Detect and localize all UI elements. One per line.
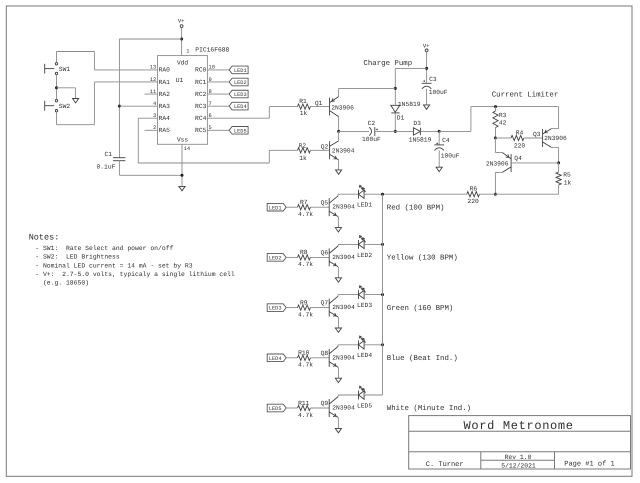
svg-text:R8: R8 [300,249,308,256]
wire SW1 top to RA0 [57,52,158,70]
node label Red (100 BPM) [387,203,445,212]
svg-text:C2: C2 [368,120,376,127]
svg-text:100uF: 100uF [441,152,460,159]
wire LED4 to bus [364,344,383,346]
svg-text:100uF: 100uF [362,136,381,143]
wire D1 to mid rail [394,113,397,133]
svg-text:LED2: LED2 [269,256,282,262]
node label Notes [29,232,235,286]
svg-text:2N3904: 2N3904 [332,304,355,311]
resistor R6 220 [467,186,480,206]
resistor R10 4.7k [298,350,314,369]
wire D1 node to D3 [395,130,413,132]
wire Q9 emitter to ground [337,417,339,428]
svg-text:Charge Pump: Charge Pump [363,59,412,68]
node LED5 flag (driver input) [267,404,286,412]
node LED4 flag (driver input) [267,354,286,362]
wire R2 to Q2 base [310,149,329,151]
wire junction to ground (switches) [57,88,76,99]
wire bottom rail (bus to R6 to R5) [383,193,559,195]
wire Q8 collector to LED4 [338,345,358,347]
resistor R1 1k [298,98,311,117]
svg-text:RA1: RA1 [159,79,171,86]
wire Q6 emitter to ground [337,267,339,278]
wire Q7 collector to LED3 [338,295,358,297]
wire RC4 to R1 [207,107,297,119]
node LED4 flag [229,102,248,110]
wire SW1 bottom to SW2 top [55,75,58,100]
svg-text:LED4: LED4 [269,356,282,362]
wire V+ to C3/rail [394,52,428,105]
svg-text:2N3904: 2N3904 [332,204,355,211]
svg-text:Q6: Q6 [321,250,329,257]
diode D3 1N5819 [409,120,432,144]
wire RA2 stub [145,93,158,95]
svg-text:4.7k: 4.7k [298,261,313,268]
LED LED4 [357,336,372,359]
svg-text:Rev 1.0: Rev 1.0 [505,454,532,461]
svg-text:Word Metronome: Word Metronome [464,419,574,433]
svg-text:Q5: Q5 [321,199,329,206]
wire Q3 collector to R5 node [551,147,560,164]
svg-text:RC2: RC2 [195,91,207,98]
wire Q3 emitter to rail [551,107,558,129]
node bus junction [381,343,384,346]
node LED3 flag [229,90,248,98]
capacitor C1 0.1uF [97,151,126,170]
transistor Q4 2N3906 [486,153,522,173]
svg-text:R11: R11 [298,400,310,407]
wire Q1/Q2 node to C2 [339,130,369,132]
svg-text:220: 220 [514,143,526,150]
wire C2 to D1 node [375,130,396,132]
svg-text:2N3904: 2N3904 [332,148,355,155]
svg-text:- Nominal LED current = 14 mA: - Nominal LED current = 14 mA - set by R… [35,262,192,269]
svg-text:LED3: LED3 [234,92,247,98]
svg-text:RC5: RC5 [195,127,207,134]
resistor R3 47 [493,105,507,138]
capacitor C2 100uF [362,120,381,143]
switch SW1 [45,63,71,75]
wire R1 to Q1 base [310,106,329,108]
svg-text:Q8: Q8 [321,350,329,357]
wire V+ stem to IC Vdd [180,28,183,56]
svg-text:V+: V+ [178,18,185,25]
svg-text:RA4: RA4 [159,115,171,122]
wire D3 to C4 node [420,130,440,133]
diode D1 1N5819 [391,101,421,121]
svg-text:Notes:: Notes: [29,232,60,242]
svg-text:C. Turner: C. Turner [426,461,464,469]
ground (Q8 emitter) [335,378,341,382]
ground (Q7 emitter) [335,328,341,332]
svg-text:LED4: LED4 [234,104,247,110]
svg-text:Q2: Q2 [321,144,329,151]
wire Q1 collector to node [337,117,340,133]
svg-text:1N5819: 1N5819 [398,101,421,108]
power V+ (charge pump) [423,42,430,52]
wire C4 to ground [438,150,440,167]
LED LED1 [357,185,372,208]
svg-text:LED4: LED4 [357,352,372,359]
power V+ (IC supply) [178,18,185,28]
transistor Q6 2N3904 [321,246,355,267]
wire LED5 to bus [364,394,383,396]
wire Q4 collector to bottom rail [494,172,502,195]
resistor R8 4.7k [298,249,314,268]
wire RA5 stub [145,129,158,131]
svg-text:0.1uF: 0.1uF [97,164,116,171]
LED LED3 [357,286,372,309]
wire V+ rail to C1 branch [118,39,182,158]
wire LED bus vertical [382,194,384,395]
svg-text:2N3904: 2N3904 [332,254,355,261]
svg-text:C1: C1 [104,151,112,158]
svg-text:2N3906: 2N3906 [331,104,354,111]
transistor Q9 2N3904 [321,397,355,418]
svg-text:1k: 1k [300,110,308,117]
svg-text:LED5: LED5 [234,128,247,134]
svg-text:2N3906: 2N3906 [486,161,509,168]
wire RA4 loop to R2 [138,118,297,163]
node LED2 flag [229,78,248,86]
wire C4 node to limiter rail [439,107,558,132]
svg-text:Q1: Q1 [315,100,323,107]
svg-text:1: 1 [186,49,189,55]
svg-text:RA5: RA5 [159,127,171,134]
svg-text:Q3: Q3 [533,131,541,138]
node label Current Limiter [492,91,559,100]
node LED1 flag (driver input) [267,203,286,211]
svg-text:LED1: LED1 [234,68,247,74]
wire U1 to flag LED5 [207,129,229,131]
node label Blue (Beat Ind.) [387,354,458,363]
node bus junction [381,193,384,196]
svg-text:Q9: Q9 [321,400,329,407]
svg-text:Red (100 BPM): Red (100 BPM) [387,203,445,212]
wire U1 to flag LED2 [207,81,229,83]
ground (Q9 emitter) [335,428,341,432]
svg-text:Current Limiter: Current Limiter [492,91,559,100]
node LED2 flag (driver input) [267,254,286,262]
svg-text:1k: 1k [299,155,307,162]
svg-text:LED2: LED2 [234,80,247,86]
ground (Vss) [179,186,185,190]
svg-text:42: 42 [499,120,507,127]
node bus junction [381,293,384,296]
wire flag to R8 [286,256,297,258]
transistor Q8 2N3904 [321,346,355,367]
svg-text:- V+: 2.7-5.0 volts, typicaly: - V+: 2.7-5.0 volts, typicaly a single l… [35,271,235,278]
svg-text:4.7k: 4.7k [298,412,313,419]
svg-text:2N3904: 2N3904 [332,354,355,361]
svg-text:D1: D1 [397,115,405,122]
svg-text:D3: D3 [413,120,421,127]
svg-text:Green (160 BPM): Green (160 BPM) [387,304,454,313]
ground (Q6 emitter) [335,278,341,282]
svg-text:Yellow (130 BPM): Yellow (130 BPM) [387,254,458,263]
svg-text:White (Minute Ind.): White (Minute Ind.) [387,404,471,413]
transistor Q1 2N3906 [315,97,354,117]
wire U1 to flag LED1 [207,69,229,71]
ground (C4) [436,167,442,171]
wire Vss to ground [181,144,184,186]
transistor Q5 2N3904 [321,196,355,217]
svg-text:LED3: LED3 [269,306,282,312]
svg-text:Page #1 of 1: Page #1 of 1 [564,460,614,469]
svg-text:R5: R5 [563,172,571,179]
svg-text:2N3906: 2N3906 [544,135,567,142]
resistor R5 1k [556,163,571,194]
svg-text:R9: R9 [300,299,308,306]
wire flag to R10 [286,357,297,359]
svg-text:1N5819: 1N5819 [409,137,432,144]
svg-text:- SW2: LED Brightness: - SW2: LED Brightness [35,254,120,261]
wire R10 to Q8 base [310,357,329,359]
node label Yellow (130 BPM) [387,254,458,263]
svg-text:R3: R3 [499,112,507,119]
wire LED3 to bus [364,294,383,296]
wire SW2 bottom to RA1 [57,82,158,125]
node LED5 flag [229,127,248,135]
transistor Q3 2N3906 [533,129,567,148]
svg-text:C3: C3 [429,76,437,83]
svg-text:5/12/2021: 5/12/2021 [501,462,536,469]
svg-text:R2: R2 [299,143,307,150]
svg-text:RC3: RC3 [195,103,207,110]
svg-text:RC4: RC4 [195,115,207,122]
svg-text:R10: R10 [298,350,310,357]
svg-text:LED5: LED5 [269,406,282,412]
svg-text:Vdd: Vdd [177,59,189,66]
wire R7 to Q5 base [310,206,329,208]
wire U1 to flag LED3 [207,93,229,95]
svg-text:220: 220 [467,198,479,205]
svg-text:U1: U1 [176,77,184,84]
svg-text:LED1: LED1 [357,202,372,209]
capacitor C4 100uF [434,131,460,159]
svg-text:100uF: 100uF [429,89,448,96]
wire Q1 emitter to rail [338,88,340,96]
svg-text:LED5: LED5 [357,402,372,409]
wire Q2 collector to node [338,131,340,141]
svg-text:PIC16F688: PIC16F688 [195,47,229,54]
svg-text:RA3: RA3 [159,103,171,110]
svg-text:R1: R1 [299,98,307,105]
svg-text:1k: 1k [564,180,572,187]
LED LED2 [357,236,372,259]
pin names and pin numbers U1 [150,65,215,134]
wire R11 to Q9 base [310,407,329,409]
ground (Q2 emitter) [336,170,342,174]
svg-text:(e.g. 18650): (e.g. 18650) [35,280,89,287]
wire Q7 emitter to ground [337,317,339,328]
wire flag to R7 [286,206,297,208]
svg-text:V+: V+ [423,42,430,49]
resistor R2 1k [298,143,311,162]
wire Q4 base to R5 node [511,162,558,164]
node bus junction [381,243,384,246]
wire R9 to Q7 base [310,307,329,309]
svg-text:LED3: LED3 [357,302,372,309]
wire Q9 collector to LED5 [338,395,358,397]
svg-text:R7: R7 [300,199,308,206]
ground (Q5 emitter) [335,228,341,232]
svg-text:R4: R4 [516,130,524,137]
svg-text:LED1: LED1 [269,205,282,211]
wire RA3 to V+ rail [119,105,157,107]
switch SW2 [45,100,71,112]
svg-text:RA0: RA0 [159,67,171,74]
svg-text:R6: R6 [470,186,478,193]
resistor R11 4.7k [298,400,314,419]
resistor R9 4.7k [298,299,314,318]
node label White (Minute Ind.) [387,404,471,413]
node LED3 flag (driver input) [267,304,286,312]
svg-text:- SW1: Rate Select and power: - SW1: Rate Select and power on/off [35,245,173,252]
wire flag to R9 [286,307,297,309]
wire U1 to flag LED4 [207,105,229,107]
wire Q1 emitter rail [339,87,396,89]
wire C3 to ground [426,89,428,105]
wire Q8 emitter to ground [337,367,339,378]
svg-text:C4: C4 [442,137,450,144]
capacitor C3 100uF [422,76,448,96]
svg-text:LED2: LED2 [357,252,372,259]
resistor R4 220 [494,130,543,150]
wire C1 to ground rail [119,161,182,176]
wire flag to R11 [286,407,297,409]
wire Q5 emitter to ground [337,217,339,228]
transistor Q2 2N3904 [321,141,355,160]
svg-text:14: 14 [184,146,190,152]
svg-text:4.7k: 4.7k [298,211,313,218]
resistor R7 4.7k [298,199,314,218]
node LED1 flag [229,66,248,74]
wire LED2 to bus [364,243,383,245]
wire R8 to Q6 base [310,256,329,258]
wire Q4 emitter to R3/R4 node [495,138,502,153]
LED LED5 [357,386,372,409]
wire Q2 emitter to ground [338,160,340,170]
wire Q5 collector to LED1 [338,194,358,196]
transistor Q7 2N3904 [321,296,355,317]
wire Q6 collector to LED2 [338,244,358,246]
svg-text:Blue (Beat Ind.): Blue (Beat Ind.) [387,354,458,363]
IC U1 PIC16F688 [158,47,230,152]
title block [409,416,631,470]
svg-text:Vss: Vss [177,136,189,143]
svg-text:RA2: RA2 [159,91,171,98]
svg-text:2N3904: 2N3904 [332,405,355,412]
svg-text:RC1: RC1 [195,79,207,86]
svg-text:Q4: Q4 [514,155,522,162]
svg-text:4.7k: 4.7k [298,362,313,369]
svg-text:SW1: SW1 [59,66,71,73]
node label Green (160 BPM) [387,304,454,313]
ground (C3) [424,105,430,109]
node label Charge Pump [363,59,412,68]
svg-text:SW2: SW2 [59,103,71,110]
svg-text:Q7: Q7 [321,300,329,307]
svg-text:RC0: RC0 [195,67,207,74]
svg-text:4.7k: 4.7k [298,311,313,318]
ground (switch common) [73,99,79,103]
wire LED1 to bus [364,193,383,195]
